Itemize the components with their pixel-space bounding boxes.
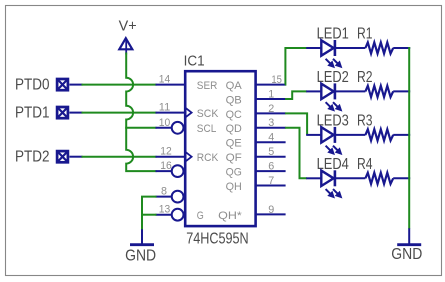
- svg-text:R4: R4: [357, 156, 373, 173]
- svg-text:PTD1: PTD1: [15, 105, 50, 122]
- svg-text:PTD0: PTD0: [15, 77, 50, 94]
- svg-text:7: 7: [268, 175, 274, 187]
- svg-text:8: 8: [161, 186, 167, 198]
- svg-text:74HC595N: 74HC595N: [186, 230, 249, 247]
- svg-text:V+: V+: [119, 18, 137, 34]
- pin 10 of IC1: [156, 117, 217, 135]
- pin 13 of IC1: [156, 204, 204, 222]
- svg-text:QB: QB: [226, 94, 242, 106]
- wire QA pin15 to LED1: [285, 48, 307, 85]
- resistor R1: [357, 26, 410, 54]
- svg-text:QG: QG: [226, 167, 242, 179]
- svg-text:11: 11: [159, 102, 171, 114]
- svg-text:R3: R3: [357, 113, 373, 130]
- pin 12 of IC1: [156, 146, 219, 164]
- svg-text:14: 14: [159, 74, 171, 86]
- wire pin8 to GND: [142, 197, 157, 230]
- LED LED4: [306, 156, 365, 198]
- svg-text:1: 1: [268, 88, 274, 100]
- svg-text:G: G: [197, 210, 204, 222]
- connector PTD0: [15, 77, 83, 94]
- ground GND right: [391, 228, 422, 263]
- svg-text:3: 3: [268, 117, 274, 129]
- svg-text:2: 2: [268, 103, 274, 115]
- svg-text:R2: R2: [357, 69, 373, 86]
- svg-text:QH*: QH*: [218, 210, 242, 222]
- pin 2 QC of IC1: [226, 103, 286, 121]
- supply V+: [119, 18, 137, 54]
- pin 7 QH of IC1: [226, 175, 286, 193]
- svg-text:12: 12: [160, 146, 172, 158]
- resistor R4: [357, 156, 410, 184]
- svg-text:QE: QE: [226, 138, 243, 150]
- LED LED1: [306, 26, 365, 68]
- wire QC pin2 to LED3: [285, 113, 307, 134]
- svg-text:R1: R1: [357, 26, 373, 43]
- svg-text:QD: QD: [226, 123, 242, 135]
- svg-text:QF: QF: [226, 152, 242, 164]
- svg-text:5: 5: [268, 146, 274, 158]
- svg-text:RCK: RCK: [197, 152, 219, 164]
- svg-text:13: 13: [159, 204, 171, 216]
- wire QD pin3 to LED4: [285, 128, 307, 179]
- pin 3 QD of IC1: [226, 117, 286, 135]
- svg-text:IC1: IC1: [184, 54, 205, 70]
- svg-text:6: 6: [268, 161, 274, 173]
- wire pin13 to GND: [142, 214, 157, 216]
- wire QB pin1 to LED2: [285, 91, 307, 99]
- pin 15 QA of IC1: [226, 74, 286, 92]
- pin 5 QF of IC1: [226, 146, 286, 164]
- svg-text:16: 16: [160, 160, 172, 172]
- pin 11 of IC1: [156, 102, 219, 120]
- wire PTD2 to IC: [82, 156, 157, 158]
- pin 8 of IC1: [156, 186, 184, 203]
- wire ground rail right: [408, 47, 410, 229]
- svg-text:SER: SER: [197, 80, 218, 92]
- wire PTD1 to IC: [82, 112, 157, 114]
- resistor R3: [357, 113, 410, 141]
- svg-text:QA: QA: [226, 80, 243, 92]
- pin 1 QB of IC1: [226, 88, 286, 106]
- ground GND left: [125, 228, 156, 264]
- svg-text:SCL: SCL: [197, 123, 217, 135]
- connector PTD1: [15, 105, 83, 122]
- svg-text:10: 10: [159, 117, 171, 129]
- svg-text:GND: GND: [125, 247, 156, 264]
- connector PTD2: [15, 149, 83, 166]
- svg-text:GND: GND: [391, 246, 422, 263]
- pin 4 QE of IC1: [226, 132, 286, 150]
- pin 6 QG of IC1: [226, 161, 286, 179]
- wire V+ vertical with hops: [126, 53, 156, 172]
- resistor R2: [357, 69, 410, 97]
- pin 9 QH* of IC1: [218, 204, 285, 222]
- svg-text:SCK: SCK: [197, 108, 219, 120]
- svg-text:QC: QC: [226, 109, 242, 121]
- svg-text:QH: QH: [226, 181, 242, 193]
- IC IC1 74HC595N shift register: [185, 71, 255, 226]
- LED LED3: [306, 113, 365, 155]
- LED LED2: [306, 69, 365, 111]
- pin 14 of IC1: [156, 74, 218, 92]
- svg-text:9: 9: [268, 204, 274, 216]
- pin 16 of IC1: [156, 160, 184, 177]
- svg-text:15: 15: [271, 74, 282, 86]
- wire PTD0 to IC: [82, 84, 157, 86]
- svg-text:PTD2: PTD2: [15, 149, 50, 166]
- wire SCL tee to V+: [125, 127, 156, 129]
- svg-text:4: 4: [268, 132, 274, 144]
